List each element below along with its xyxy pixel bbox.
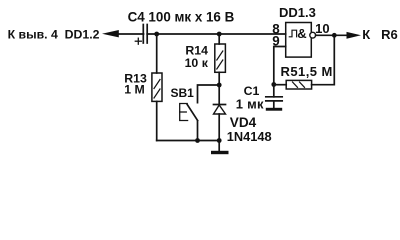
wire C4 to gate input 8 bbox=[147, 33, 286, 35]
wire bottom rail bbox=[157, 140, 220, 142]
svg-text:VD4: VD4 bbox=[230, 115, 257, 130]
wire to SB1 bbox=[198, 85, 220, 103]
wire R13 top lead bbox=[156, 34, 158, 73]
node junction pin9/C1/R5 bbox=[271, 82, 276, 87]
C4 plus polarity mark bbox=[135, 40, 141, 42]
wire R5 to output node bbox=[312, 35, 335, 84]
wire R14 bottom lead bbox=[218, 72, 220, 85]
svg-text:9: 9 bbox=[272, 34, 279, 49]
node junction C4/R13 bbox=[154, 32, 159, 37]
node junction R14/SB1/VD4 bbox=[217, 83, 222, 88]
DD1.3 schmitt hysteresis symbol bbox=[289, 30, 296, 37]
svg-text:SB1: SB1 bbox=[171, 86, 195, 100]
svg-text:10 к: 10 к bbox=[185, 56, 209, 70]
wire SB1 bottom lead bbox=[197, 121, 199, 141]
node A: arrow to external pin 4 DD1.2 bbox=[102, 30, 119, 37]
node junction output/feedback bbox=[332, 33, 337, 38]
svg-text:1 М: 1 М bbox=[124, 83, 145, 97]
wire arrow to C4 bbox=[118, 33, 144, 35]
DD1.3 output inversion circle bbox=[310, 32, 316, 38]
capacitor C4 bbox=[142, 25, 144, 44]
node junction SB1 bottom bbox=[195, 138, 200, 143]
diode VD4 bbox=[218, 85, 220, 105]
wire R13 bottom lead bbox=[156, 101, 158, 140]
svg-text:C4 100 мк х 16 В: C4 100 мк х 16 В bbox=[128, 9, 235, 24]
svg-text:1 мк: 1 мк bbox=[236, 97, 264, 112]
node junction R14 top bbox=[217, 32, 222, 37]
wire gate output bbox=[316, 34, 347, 36]
node junction VD4 bottom bbox=[217, 138, 222, 143]
wire node to R5 bbox=[274, 84, 286, 86]
switch SB1 moving contact bbox=[187, 105, 197, 121]
svg-text:К R6: К R6 bbox=[362, 27, 397, 42]
wire pin 9 to feedback node bbox=[274, 47, 286, 85]
svg-text:1N4148: 1N4148 bbox=[227, 129, 272, 144]
svg-text:&: & bbox=[297, 26, 306, 41]
wire R14 top lead bbox=[218, 34, 220, 44]
resistor R13 bbox=[152, 73, 162, 101]
ground under C1 bbox=[273, 101, 275, 108]
ground bbox=[218, 141, 220, 151]
arrow to external R6 bbox=[347, 32, 362, 39]
capacitor C1 bbox=[273, 85, 275, 97]
svg-text:10: 10 bbox=[315, 21, 329, 36]
svg-text:DD1.3: DD1.3 bbox=[279, 5, 316, 20]
svg-text:К выв. 4 DD1.2: К выв. 4 DD1.2 bbox=[8, 28, 100, 42]
logic gate DD1.3 bbox=[286, 23, 312, 58]
resistor R14 bbox=[215, 44, 226, 72]
svg-text:R51,5 М: R51,5 М bbox=[281, 64, 333, 79]
switch SB1 pushbutton actuator bbox=[180, 104, 188, 121]
resistor R5 bbox=[286, 80, 311, 89]
